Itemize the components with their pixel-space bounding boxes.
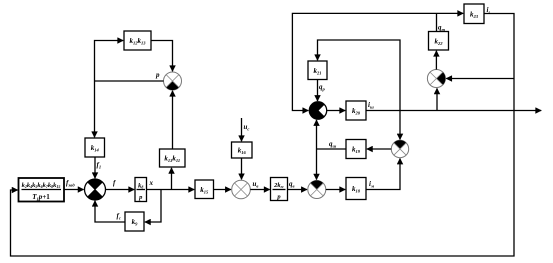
wire gate output q_v to summer S5 [288,189,307,191]
svg-text:k9: k9 [132,218,139,226]
svg-text:f: f [113,179,116,187]
block 2k_gc/p [271,178,288,201]
block k22 [429,32,449,51]
svg-text:p: p [276,194,281,201]
wire S5 output to k18 [326,189,345,191]
svg-text:f1: f1 [97,161,102,170]
svg-text:uc: uc [244,123,250,132]
wire p branch up to k12k13 input [95,41,124,82]
wire q_t right to k23 input [437,12,464,14]
wire branch to summer S7 right input [446,78,514,80]
integrator block k8/p [135,178,147,202]
wire k15 output to summer S4 [214,189,231,191]
svg-text:fзад: fзад [66,179,75,188]
wire S2 output p line going left [95,80,164,82]
wire integrator output x to k15 [147,189,195,191]
wire k20 output i_sh long line to right edge [366,110,541,112]
summer S5 (top quadrant black) [308,180,326,198]
wire x node down to k9 input [145,190,161,223]
summer S7 (right quadrant black) [427,70,445,88]
block k16 [232,142,253,158]
wire k21 output q_r down to S3 top [317,80,319,102]
svg-text:k13k11: k13k11 [164,155,180,163]
svg-text:iг: iг [487,6,491,15]
svg-text:T1p+1: T1p+1 [32,193,50,201]
block k15 [195,180,214,199]
wire k14 output f1 down to S1 top [94,157,96,178]
svg-text:k19: k19 [352,146,361,154]
wire x node up to k13k11 input [171,168,173,190]
svg-text:k12k13: k12k13 [130,37,147,45]
svg-text:qв: qв [289,180,295,189]
wire S7 output up to k22 [435,51,437,70]
wire i_sh branch up to S7 bottom [436,88,438,110]
block k18 [346,178,366,200]
svg-text:qр: qр [319,83,326,92]
svg-text:p: p [155,71,160,79]
block k12k13 [124,31,151,50]
wire k12k13 output to S2 top [151,41,173,72]
wire i_sh branch down to S6 top [399,111,401,140]
wire k19 output q_sh branching to S3 bottom and S5 top [317,148,347,150]
summer S6 (top quadrant black) [391,140,408,157]
svg-text:qш: qш [329,140,337,149]
svg-text:k15: k15 [200,186,209,194]
block k13k11 [160,149,186,167]
wire S4 output u_v to gate block [250,189,269,191]
svg-text:k23: k23 [470,11,479,19]
wire i_sh branch up and left to k21 input [318,40,401,111]
wire S3 output to k20 [327,110,346,112]
svg-text:k2k4k5k6k7k8k15: k2k4k5k6k7k8k15 [22,182,61,189]
block k14 [85,138,105,157]
svg-text:k8: k8 [138,183,143,190]
wire k9 output f_c to S1 bottom [95,201,125,222]
wire k16 output down to S4 top [241,158,243,179]
wire B1 output f_zad to summer S1 [64,189,84,191]
svg-text:x: x [149,179,154,187]
wire external input u_c down to k16 [241,118,243,141]
svg-text:k22: k22 [435,38,444,46]
svg-text:k16: k16 [238,147,247,155]
svg-text:p: p [138,194,143,201]
summer S1 (top and bottom quadrants black) [85,179,106,200]
svg-text:uв: uв [253,180,259,189]
summer S4 (plain) [232,180,251,199]
block k23 [464,4,484,24]
svg-text:iм: iм [369,180,374,189]
summer S2 (bottom quadrant black) [164,72,182,90]
wire p branch down to k14 input [94,81,96,137]
wire k18 output i_m to S6 bottom [366,159,400,190]
block k21 [308,61,327,80]
block k19 [346,140,366,159]
wire S6 output left to k19 [367,148,391,150]
block k20 [346,101,366,120]
wire S1 output f to integrator block [106,189,135,191]
block k9 [125,212,144,231]
summer S3 (top, left, bottom quadrants black) [309,102,326,120]
wire k22 output q_t up to top line [436,13,438,31]
svg-text:k14: k14 [91,144,100,152]
svg-text:k20: k20 [352,107,361,115]
wire q_t left along top and down to S3 left input [292,13,436,110]
svg-text:k21: k21 [314,67,322,75]
svg-text:k18: k18 [352,185,361,193]
svg-text:2kгс: 2kгс [273,182,284,189]
svg-text:qт: qт [438,24,446,33]
regulator block B1 k2k4k5k6k7k8k15 / T1p+1 [19,178,65,202]
svg-text:iш: iш [368,101,374,110]
svg-text:fc: fc [117,212,121,221]
wire k13k11 output up to S2 bottom [172,91,174,149]
